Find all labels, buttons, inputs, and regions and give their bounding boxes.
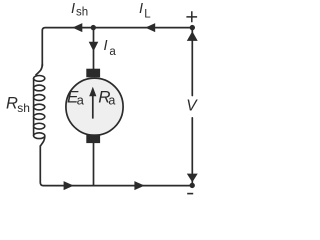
inductor Rsh coil exit: [40, 137, 45, 147]
svg-text:a: a: [108, 94, 115, 108]
junction node top right: [190, 25, 195, 30]
wire left branch lower + bottom rail: [40, 146, 192, 186]
plus sign: [186, 11, 197, 22]
svg-text:I: I: [71, 1, 75, 17]
arrow Ish (left) on top wire: [72, 23, 82, 32]
svg-text:V: V: [186, 97, 198, 114]
svg-text:L: L: [144, 8, 151, 20]
junction node top middle: [91, 25, 96, 30]
svg-text:sh: sh: [17, 101, 30, 115]
wire left branch upper + top rail: [42, 28, 192, 66]
wire middle branch lower: [93, 143, 95, 186]
arrow V down on right branch: [187, 174, 198, 183]
wire right branch upper: [191, 28, 193, 96]
brush bottom: [86, 134, 100, 143]
junction node bottom right: [190, 183, 195, 188]
motor armature circle U1: [66, 78, 123, 135]
arrow V up on right branch: [187, 31, 198, 41]
svg-text:I: I: [104, 38, 108, 54]
wire right branch lower: [191, 118, 193, 186]
svg-text:I: I: [139, 1, 143, 17]
brush top: [86, 69, 100, 78]
armature arrow inside motor: [92, 92, 94, 119]
inductor Rsh coil entry: [36, 64, 42, 75]
arrow IL (left) on top wire: [145, 23, 155, 32]
svg-text:sh: sh: [76, 7, 88, 19]
svg-text:a: a: [109, 46, 116, 58]
wire middle branch upper: [93, 28, 95, 69]
arrow bottom-left (right) on bottom wire: [64, 181, 74, 190]
arrow bottom-right (right) on bottom wire: [134, 181, 144, 190]
arrow Ia (down) on middle branch: [89, 42, 99, 52]
inductor Rsh loops: [34, 76, 45, 139]
svg-text:a: a: [77, 93, 85, 108]
svg-text:R: R: [6, 94, 18, 112]
minus sign: [187, 193, 193, 195]
